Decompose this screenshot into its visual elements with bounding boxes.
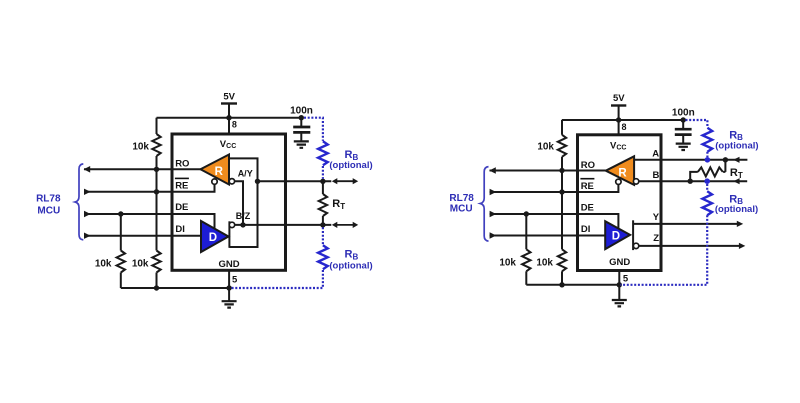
svg-text:100n: 100n xyxy=(290,106,313,117)
svg-text:A/Y: A/Y xyxy=(238,168,253,178)
svg-text:R: R xyxy=(215,166,224,178)
svg-text:10k: 10k xyxy=(499,258,516,269)
svg-text:Z: Z xyxy=(653,233,659,244)
svg-text:5V: 5V xyxy=(613,93,625,104)
svg-text:RE: RE xyxy=(175,181,188,192)
svg-text:10k: 10k xyxy=(132,258,149,269)
svg-text:(optional): (optional) xyxy=(715,204,758,215)
svg-text:10k: 10k xyxy=(95,258,112,269)
svg-text:5V: 5V xyxy=(223,92,235,103)
svg-text:5: 5 xyxy=(232,274,238,285)
svg-text:100n: 100n xyxy=(672,107,695,118)
svg-text:10k: 10k xyxy=(536,258,553,269)
svg-text:R: R xyxy=(618,168,627,180)
svg-text:D: D xyxy=(209,232,217,244)
svg-text:MCU: MCU xyxy=(37,206,60,217)
svg-text:GND: GND xyxy=(218,259,239,270)
svg-text:10k: 10k xyxy=(537,141,554,152)
svg-text:10k: 10k xyxy=(132,142,149,153)
svg-text:MCU: MCU xyxy=(450,204,473,215)
svg-text:A: A xyxy=(652,148,659,159)
svg-text:RL78: RL78 xyxy=(36,194,61,205)
svg-text:8: 8 xyxy=(622,122,627,132)
svg-text:(optional): (optional) xyxy=(329,160,372,171)
svg-text:RO: RO xyxy=(581,160,595,171)
svg-text:B/Z: B/Z xyxy=(236,211,251,221)
svg-text:RO: RO xyxy=(175,158,189,169)
svg-text:RL78: RL78 xyxy=(449,193,474,204)
svg-text:B: B xyxy=(653,170,660,181)
svg-text:GND: GND xyxy=(609,257,630,268)
svg-text:D: D xyxy=(612,230,620,242)
svg-text:DE: DE xyxy=(175,202,188,213)
svg-text:(optional): (optional) xyxy=(329,261,372,272)
svg-text:RE: RE xyxy=(581,181,594,192)
svg-text:8: 8 xyxy=(232,119,237,129)
svg-text:DI: DI xyxy=(175,224,185,235)
svg-text:Y: Y xyxy=(653,212,660,223)
svg-text:(optional): (optional) xyxy=(715,141,758,152)
svg-text:DI: DI xyxy=(581,224,591,235)
svg-text:5: 5 xyxy=(623,274,629,285)
svg-text:DE: DE xyxy=(581,202,594,213)
